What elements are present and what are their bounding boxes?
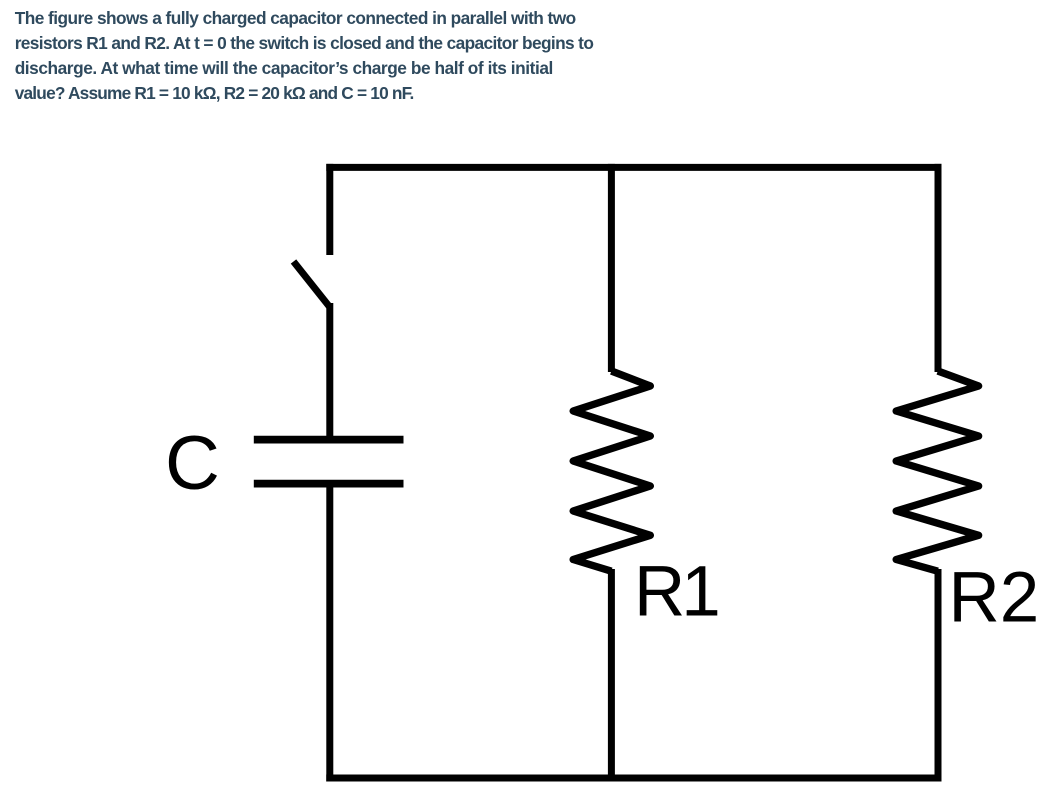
wire R1 top lead — [608, 164, 615, 372]
wire bottom rail — [326, 775, 941, 782]
resistor R1 zigzag — [573, 371, 650, 571]
wire R1 bottom lead — [608, 569, 615, 782]
capacitor C top plate — [254, 436, 404, 444]
wire R2 bottom lead — [935, 569, 942, 782]
switch S1 blade (open) — [294, 262, 330, 307]
svg-text:R2: R2 — [949, 559, 1040, 638]
resistor R2 zigzag — [896, 371, 978, 571]
wire top rail — [326, 164, 941, 171]
wire switch top lead — [326, 164, 333, 255]
wire R2 top lead — [935, 164, 942, 372]
svg-text:R1: R1 — [634, 553, 721, 632]
svg-text:C: C — [165, 421, 220, 506]
wire capacitor bottom lead — [326, 487, 333, 782]
capacitor C bottom plate — [254, 480, 404, 488]
wire switch bottom lead to capacitor — [326, 303, 333, 436]
